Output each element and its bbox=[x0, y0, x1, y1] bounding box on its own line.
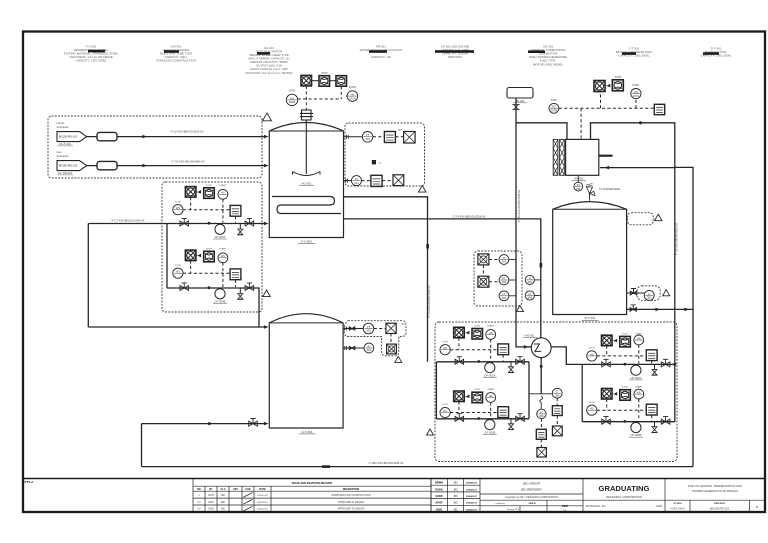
svg-text:DESIGNING CORPORATION: DESIGNING CORPORATION bbox=[606, 495, 642, 499]
svg-text:JBC: JBC bbox=[453, 509, 458, 511]
start circle CP-304A bbox=[218, 189, 228, 199]
start circle CP-302B bbox=[486, 393, 496, 403]
stop circle CP-303B bbox=[587, 405, 597, 415]
svg-text:GN-301INTERNAL COMBUSTIONGENER: GN-301INTERNAL COMBUSTIONGENERATOR150kV … bbox=[529, 45, 568, 67]
agitator shaft bbox=[305, 120, 307, 174]
svg-text:STOP: STOP bbox=[289, 91, 296, 93]
svg-text:CP-303A: CP-303A bbox=[630, 376, 641, 380]
controller square chain1 bbox=[536, 429, 546, 439]
alarm square TAH-301 bbox=[404, 132, 416, 144]
svg-text:PB-301: PB-301 bbox=[516, 99, 525, 103]
alarm square dark 2 bbox=[478, 276, 489, 287]
svg-text:2" CS-XXX-BIO100-0020-SX: 2" CS-XXX-BIO100-0020-SX bbox=[428, 285, 431, 317]
svg-text:2" WS-XXX-BIO100-0028-SX: 2" WS-XXX-BIO100-0028-SX bbox=[518, 189, 521, 222]
svg-text:03/01: 03/01 bbox=[208, 502, 214, 504]
relay square generator bbox=[654, 104, 664, 114]
wire to stop square bbox=[312, 80, 320, 82]
svg-text:AG-301: AG-301 bbox=[302, 181, 312, 185]
svg-text:03/04/2017: 03/04/2017 bbox=[466, 488, 478, 491]
substrate source boundary box bbox=[48, 116, 262, 178]
stop square generator bbox=[612, 80, 623, 91]
link arrow bbox=[196, 190, 201, 194]
inlet arrow into fermenter bbox=[264, 135, 269, 139]
stop circle CP-303A bbox=[587, 351, 597, 361]
inlet arrow into G-T-301 bbox=[264, 325, 269, 329]
dashed signal wires bbox=[450, 338, 503, 361]
svg-text:APV: APV bbox=[233, 488, 238, 491]
arrow into H-E-301 bbox=[524, 345, 529, 349]
svg-text:JBC: JBC bbox=[221, 495, 226, 497]
wire substrate line bbox=[87, 165, 264, 167]
link arrow bbox=[464, 394, 469, 398]
link arrow bbox=[464, 331, 469, 335]
drain valve CP-304A bbox=[239, 224, 241, 230]
B-T vent capsule bbox=[627, 213, 653, 225]
company cell JBC bbox=[480, 479, 583, 513]
svg-text:STOP: STOP bbox=[321, 73, 328, 75]
svg-text:STOP: STOP bbox=[474, 389, 480, 391]
wire CP-302 suction header bbox=[435, 362, 437, 419]
tank G-T-301 bbox=[269, 314, 343, 428]
controller square PIC-301 bbox=[371, 175, 382, 186]
svg-text:STOP: STOP bbox=[206, 248, 212, 250]
dashed signal row generator bbox=[559, 91, 655, 139]
wire substrate line bbox=[87, 136, 264, 138]
svg-text:GS-T-201: GS-T-201 bbox=[59, 142, 72, 146]
svg-text:▲: ▲ bbox=[755, 505, 758, 509]
svg-text:4" CT-XXX-BIO100-0024-SX: 4" CT-XXX-BIO100-0024-SX bbox=[111, 219, 144, 223]
triangle marker instrument box bbox=[419, 186, 427, 193]
svg-text:4200: 4200 bbox=[656, 504, 662, 508]
drain valve G-T bbox=[249, 421, 258, 426]
svg-text:03/04/2017: 03/04/2017 bbox=[466, 495, 478, 498]
signature grid bbox=[431, 479, 480, 513]
flow arrow bbox=[142, 135, 147, 139]
motor square generator bbox=[594, 81, 605, 92]
pump CP-303B suction valve bbox=[602, 419, 611, 424]
reservoir outlet valve bbox=[512, 105, 519, 110]
indicator PI-302 bbox=[364, 343, 374, 353]
svg-text:03/04/2017: 03/04/2017 bbox=[257, 502, 269, 504]
stop circle HS-307B bbox=[549, 103, 559, 113]
wire fermenter gas 2in FV line bbox=[344, 219, 541, 338]
wire CP-303B pipe bbox=[582, 421, 675, 423]
svg-text:STOP: STOP bbox=[206, 185, 212, 187]
inline strainer bbox=[97, 161, 117, 169]
svg-text:P&ID OF HEATING, FERMENTATION: P&ID OF HEATING, FERMENTATION AND bbox=[688, 484, 742, 488]
link arrow bbox=[612, 392, 617, 396]
valve LI nozzle bbox=[627, 292, 645, 294]
wire CP-302B pipe bbox=[436, 418, 529, 420]
svg-text:CHKD: CHKD bbox=[435, 495, 442, 498]
B-T bottom outlet line bbox=[627, 308, 693, 310]
motor square CP-303A bbox=[602, 335, 613, 346]
wire CP-303A pipe bbox=[582, 363, 675, 365]
G-T instrument boundary box bbox=[344, 321, 406, 356]
svg-text:JO NOS: JO NOS bbox=[673, 503, 682, 505]
stop square HS-301 bbox=[319, 76, 330, 87]
svg-text:APPROVED 01 DESIGN: APPROVED 01 DESIGN bbox=[338, 501, 365, 504]
pump CP-304A suction valve bbox=[180, 221, 189, 226]
pump CP-304B suction valve bbox=[180, 286, 189, 291]
junction bbox=[208, 222, 211, 225]
wire nozzle TT-301 bbox=[344, 136, 363, 138]
alarm square dark 1 bbox=[478, 254, 489, 265]
wire coolant reservoir to generator bbox=[516, 123, 567, 140]
generator exhaust stub bbox=[599, 155, 613, 157]
svg-text:NO: NO bbox=[197, 488, 201, 491]
wire branch to x693 bbox=[675, 167, 693, 466]
inlet arrow into fermenter bbox=[264, 164, 269, 168]
svg-text:PTS.A: PTS.A bbox=[25, 480, 35, 484]
svg-text:JBC: JBC bbox=[453, 496, 458, 498]
junction bbox=[208, 286, 211, 289]
fermenter instrument boundary box bbox=[345, 123, 425, 186]
svg-text:03/04/2017: 03/04/2017 bbox=[466, 508, 478, 511]
wire H-E outlet to CP-303 bbox=[551, 347, 582, 365]
svg-text:APVD: APVD bbox=[436, 502, 443, 505]
svg-text:307B: 307B bbox=[551, 109, 557, 113]
stop circle CP-304B bbox=[173, 268, 183, 278]
svg-text:306: 306 bbox=[539, 414, 544, 418]
svg-text:303: 303 bbox=[647, 296, 652, 300]
svg-text:306: 306 bbox=[555, 393, 560, 397]
svg-text:03/04/2017: 03/04/2017 bbox=[466, 502, 478, 505]
svg-text:STOP: STOP bbox=[622, 333, 628, 335]
B-T instrument boundary box bbox=[474, 251, 522, 306]
alarm square PAH-301 bbox=[393, 175, 404, 186]
svg-text:STOP: STOP bbox=[615, 77, 622, 79]
svg-text:2" FV-XXX-BIO100-0026-SX: 2" FV-XXX-BIO100-0026-SX bbox=[453, 215, 486, 219]
wire hot water return into generator bbox=[600, 167, 675, 169]
svg-text:305: 305 bbox=[576, 187, 581, 191]
triangle marker LI bbox=[663, 290, 670, 296]
svg-text:TAH: TAH bbox=[397, 129, 402, 132]
wire feed riser x88 bbox=[87, 224, 89, 328]
indicator chain PI-306 bbox=[537, 409, 546, 418]
junction bbox=[624, 420, 627, 423]
wire nozzle PT-301 bbox=[344, 180, 352, 182]
stop circle CP-304A bbox=[173, 205, 183, 215]
svg-text:304: 304 bbox=[528, 280, 533, 284]
svg-text:DATE: DATE bbox=[259, 488, 266, 491]
wire drop to bottom header bbox=[141, 424, 143, 467]
svg-text:POWER GENERATION OF BIOGAS: POWER GENERATION OF BIOGAS bbox=[692, 489, 738, 493]
triangle marker vent bbox=[655, 214, 663, 221]
controller square TIC-301 bbox=[384, 132, 395, 143]
start circle CP-303B bbox=[634, 389, 644, 399]
start circle CP-302A bbox=[486, 330, 496, 340]
triangle marker CP-304 bbox=[263, 290, 271, 297]
pump CP-302A discharge valve bbox=[516, 359, 525, 364]
svg-text:H-E-301: H-E-301 bbox=[524, 333, 535, 337]
junction bbox=[477, 417, 480, 420]
svg-text:03/04/2017: 03/04/2017 bbox=[257, 495, 269, 497]
wire CP-302 discharge to gauges bbox=[529, 393, 552, 395]
svg-text:STOP: STOP bbox=[442, 404, 448, 406]
node mark bbox=[372, 160, 376, 164]
svg-text:303: 303 bbox=[502, 280, 507, 284]
svg-text:JBC: JBC bbox=[453, 503, 458, 505]
wire bottom header 4in CBA bbox=[142, 466, 694, 468]
pump CP-303A discharge valve bbox=[661, 362, 670, 367]
start circle CP-303A bbox=[634, 335, 644, 345]
wire suction header CP-304 bbox=[166, 224, 168, 289]
tank G-T-301 drain line bbox=[142, 423, 265, 425]
svg-text:STOP: STOP bbox=[589, 348, 595, 350]
svg-text:03/15: 03/15 bbox=[208, 495, 214, 497]
svg-text:03/04/2017: 03/04/2017 bbox=[466, 482, 478, 485]
svg-text:STOP: STOP bbox=[474, 326, 480, 328]
stop circle CP-302A bbox=[440, 345, 450, 355]
svg-text:G-T-301: G-T-301 bbox=[301, 430, 312, 434]
svg-text:STOP: STOP bbox=[175, 265, 181, 267]
svg-text:4" CBA-XXX-BIO100-0025-SX: 4" CBA-XXX-BIO100-0025-SX bbox=[368, 461, 403, 465]
pump CP-302B suction valve bbox=[455, 416, 464, 421]
pressure transmitter PT-301 bbox=[352, 176, 362, 186]
svg-text:JBC: JBC bbox=[221, 509, 226, 511]
inline strainer bbox=[97, 132, 117, 140]
transmitter circle column x504 bbox=[499, 255, 509, 265]
svg-text:BG180-PID-102: BG180-PID-102 bbox=[59, 164, 78, 168]
centrifugal pump CP-302B bbox=[485, 420, 495, 430]
alarm square TAH-302 bbox=[386, 323, 396, 333]
svg-text:STOP: STOP bbox=[442, 341, 448, 343]
company cell GRADUATING bbox=[583, 479, 665, 513]
square HS-301B bbox=[336, 76, 347, 87]
svg-text:CP-304A: CP-304A bbox=[215, 235, 226, 239]
dashed signal wires bbox=[183, 197, 236, 222]
radiator louvres bbox=[553, 139, 558, 175]
svg-text:CP-304B: CP-304B bbox=[215, 300, 226, 304]
motor square CP-302B bbox=[454, 391, 465, 402]
stop square CP-304B bbox=[204, 251, 215, 261]
svg-text:BG100-PID-102: BG100-PID-102 bbox=[59, 135, 78, 139]
motor square fermenter agitator bbox=[301, 75, 312, 86]
svg-text:2" HE-XXX-BIO100-0013-SX: 2" HE-XXX-BIO100-0013-SX bbox=[676, 223, 679, 255]
stop circle CP-302B bbox=[440, 407, 450, 417]
wire CP-304B pipe bbox=[167, 287, 255, 289]
svg-text:JBC: JBC bbox=[453, 489, 458, 491]
svg-text:START: START bbox=[487, 325, 495, 328]
wire to square bbox=[330, 80, 337, 82]
svg-text:2" GS-XXX-BIO100-0004-SX: 2" GS-XXX-BIO100-0004-SX bbox=[171, 160, 205, 164]
svg-text:Scaling NTS: Scaling NTS bbox=[507, 509, 520, 511]
svg-text:START: START bbox=[632, 84, 640, 87]
svg-text:303: 303 bbox=[502, 296, 507, 300]
fermentation vessel F-V-302 bbox=[269, 123, 343, 238]
svg-text:GN-301: GN-301 bbox=[574, 176, 584, 180]
revision table bbox=[193, 479, 431, 513]
level indicator LI-303 bbox=[644, 290, 654, 300]
svg-text:F-V-302: F-V-302 bbox=[301, 239, 312, 243]
wire feed line to tank G-T-301 bbox=[88, 326, 264, 328]
alarm square TAL-302 bbox=[387, 344, 397, 354]
relief valve to atmosphere bbox=[589, 194, 591, 201]
svg-text:START: START bbox=[349, 86, 357, 89]
dashed signal wires bbox=[597, 399, 652, 421]
junction bbox=[624, 363, 627, 366]
temperature transmitter TT-301 bbox=[362, 132, 373, 143]
wire H-E bottom bbox=[540, 358, 542, 394]
relay square CP-304B bbox=[230, 269, 241, 280]
dashed signal wires bbox=[450, 402, 503, 418]
svg-text:Substrate: Substrate bbox=[57, 125, 69, 129]
gas line instrument circles x530 bbox=[525, 275, 534, 284]
svg-text:GRADUATING: GRADUATING bbox=[599, 484, 650, 493]
centrifugal pump CP-304A bbox=[215, 224, 225, 234]
generator GN-301 body bbox=[566, 139, 599, 175]
svg-text:TAH: TAH bbox=[401, 323, 406, 326]
relay square CP-303B bbox=[646, 404, 657, 415]
svg-text:ISSD: ISSD bbox=[436, 508, 442, 511]
svg-text:BIO100-PID-103: BIO100-PID-103 bbox=[710, 506, 730, 510]
stop square CP-304A bbox=[204, 188, 215, 199]
dashed to TIC square bbox=[373, 136, 385, 138]
svg-text:301A: 301A bbox=[349, 96, 355, 100]
svg-text:ISSUE AND REVISION RECORD: ISSUE AND REVISION RECORD bbox=[292, 481, 333, 485]
svg-text:03/05: 03/05 bbox=[208, 509, 214, 511]
wire CP-303 suction header bbox=[581, 364, 583, 421]
svg-text:302: 302 bbox=[366, 329, 371, 333]
pump CP-303B discharge valve bbox=[661, 419, 670, 424]
agitator impeller AG-301 bbox=[293, 172, 321, 176]
heat exchanger H-E-301 bbox=[531, 338, 551, 358]
triangle marker big box bbox=[427, 429, 434, 435]
pump CP-304A discharge valve bbox=[245, 221, 254, 226]
svg-text:Substrate: Substrate bbox=[57, 154, 69, 158]
svg-text:DESCRIPTION: DESCRIPTION bbox=[343, 488, 360, 491]
junction bbox=[477, 360, 480, 363]
svg-text:JBC: JBC bbox=[453, 483, 458, 485]
svg-text:JBC REFINERY: JBC REFINERY bbox=[521, 487, 543, 491]
motor square CP-303B bbox=[602, 389, 613, 400]
inlet arrow CP-304A to fermenter bbox=[264, 222, 269, 226]
svg-text:301: 301 bbox=[354, 181, 359, 185]
svg-text:DRWN: DRWN bbox=[435, 482, 443, 485]
B-T lower instrument capsule bbox=[637, 286, 660, 300]
stop square CP-303B bbox=[620, 390, 631, 401]
start circle HS-307A bbox=[631, 89, 641, 99]
svg-text:START: START bbox=[219, 247, 227, 250]
svg-text:TO ATMOSPHERE: TO ATMOSPHERE bbox=[599, 188, 621, 191]
wire fermenter drain to CP-302 (x427) bbox=[344, 197, 428, 362]
svg-text:JBC: JBC bbox=[221, 502, 226, 504]
svg-text:303: 303 bbox=[502, 260, 507, 264]
relay square CP-304A bbox=[230, 205, 241, 216]
svg-text:STOP: STOP bbox=[622, 387, 628, 389]
pump CP-302B discharge valve bbox=[516, 416, 525, 421]
wire nozzle TT-302 bbox=[343, 328, 363, 330]
svg-text:GL-TW-201: GL-TW-201 bbox=[58, 171, 73, 175]
svg-text:STOP: STOP bbox=[589, 402, 595, 404]
svg-text:302: 302 bbox=[367, 348, 372, 352]
dashed signal wires bbox=[183, 261, 236, 287]
flow element squiggle bbox=[540, 397, 543, 403]
triangle marker B-T instruments bbox=[516, 306, 523, 312]
link arrow bbox=[196, 254, 201, 258]
water reservoir PB-301 bbox=[507, 88, 533, 99]
centrifugal pump CP-303A bbox=[631, 365, 641, 375]
svg-text:301B: 301B bbox=[289, 100, 295, 104]
wire CP-302 discharge header bbox=[528, 362, 530, 419]
start circle CP-304B bbox=[218, 253, 228, 263]
indicator chain TI-306 bbox=[552, 388, 562, 398]
heating and pumping boundary box bbox=[435, 322, 677, 462]
svg-text:APPROVED TO DESIGN: APPROVED TO DESIGN bbox=[337, 508, 364, 511]
svg-text:APPROVED FOR CONSTRUCTION: APPROVED FOR CONSTRUCTION bbox=[332, 494, 371, 497]
stop square CP-303A bbox=[620, 336, 631, 347]
pump CP-304B discharge valve bbox=[245, 286, 254, 291]
svg-text:BATANGAS, PH: BATANGAS, PH bbox=[586, 504, 606, 508]
triangle marker substrate box bbox=[263, 113, 272, 121]
centrifugal pump CP-303B bbox=[631, 422, 641, 432]
drain valve CP-302B bbox=[510, 419, 512, 424]
dashed signal fermenter top bbox=[298, 86, 347, 110]
svg-text:CP-302B: CP-302B bbox=[484, 430, 495, 434]
wire nozzle PI-302 bbox=[343, 347, 364, 349]
svg-text:BY: BY bbox=[209, 488, 213, 491]
drain valve CP-303A bbox=[654, 364, 656, 369]
stop circle HS-301B bbox=[286, 94, 297, 105]
wire CP-304B discharge drop bbox=[255, 288, 260, 327]
junction dot coolant bbox=[639, 121, 642, 124]
motor square CP-304A bbox=[185, 187, 196, 198]
svg-text:B-T-301: B-T-301 bbox=[585, 316, 596, 320]
svg-text:CP-303B: CP-303B bbox=[630, 433, 641, 437]
triangle marker G-T instruments bbox=[395, 356, 402, 362]
indicator PI-305 bbox=[577, 175, 579, 182]
svg-text:xx Agilent: xx Agilent bbox=[495, 502, 505, 505]
pump CP-303A suction valve bbox=[602, 362, 611, 367]
svg-text:START: START bbox=[635, 386, 643, 389]
svg-text:301: 301 bbox=[365, 137, 370, 141]
svg-text:SIZE B: SIZE B bbox=[528, 503, 535, 505]
title block strip bbox=[23, 478, 765, 480]
relay square CP-302B bbox=[498, 407, 509, 418]
drain valve CP-302A bbox=[510, 362, 512, 367]
centrifugal pump CP-302A bbox=[485, 363, 495, 373]
motor square CP-302A bbox=[454, 327, 465, 338]
relay square CP-302A bbox=[498, 344, 509, 355]
alarm square chain1 bbox=[537, 448, 547, 458]
svg-text:CLA: CLA bbox=[221, 488, 226, 491]
svg-text:CP-302A: CP-302A bbox=[484, 373, 495, 377]
pump CP-302A suction valve bbox=[455, 359, 464, 364]
transmitter TT-302 bbox=[363, 323, 374, 334]
drawing title cell bbox=[665, 500, 765, 512]
svg-text:Copyright (c) 2017, DESIGNING: Copyright (c) 2017, DESIGNING CORPORATIO… bbox=[505, 496, 558, 499]
relay square CP-303A bbox=[646, 350, 657, 361]
dashed signal wires bbox=[597, 345, 652, 364]
agitator motor stack bbox=[302, 110, 312, 120]
alarm square chain2 bbox=[552, 426, 562, 436]
wire generator to loop (x674) bbox=[591, 123, 675, 364]
svg-text:JBC GROUP: JBC GROUP bbox=[523, 481, 541, 485]
tank B-T-301 bbox=[553, 202, 627, 315]
wire CP-304A pipe bbox=[88, 223, 264, 225]
svg-text:XXXX-XXXX: XXXX-XXXX bbox=[670, 507, 685, 510]
centrifugal pump CP-304B bbox=[215, 289, 225, 299]
controller square chain2 bbox=[552, 406, 562, 416]
start circle HS-301A bbox=[347, 91, 358, 102]
flow arrow bbox=[142, 164, 147, 168]
junction mark bbox=[208, 422, 211, 425]
heating coil bbox=[272, 197, 341, 214]
svg-text:START: START bbox=[487, 388, 495, 391]
wire CP-303 discharge header x674 bbox=[674, 364, 676, 421]
stop square CP-302A bbox=[472, 329, 483, 340]
